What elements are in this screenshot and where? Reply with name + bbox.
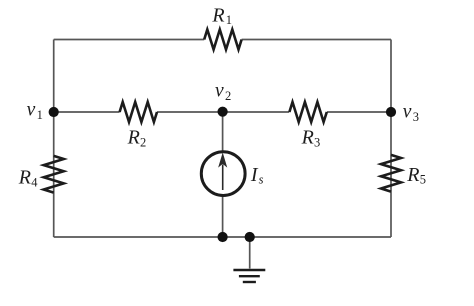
resistor R5 [381,155,401,192]
label v1 [27,100,43,123]
svg-text:4: 4 [31,175,38,189]
node v3 (junction dot) [386,107,396,117]
wire: right vertical branch (top-right corner to bottom rail) [390,40,392,238]
svg-text:3: 3 [413,110,419,124]
resistor R2 [120,102,157,122]
resistor R4 [44,156,64,193]
label R2 [127,127,147,150]
node v1 (junction dot) [49,107,59,117]
svg-text:R: R [211,5,224,27]
label v2 [215,80,231,103]
svg-text:R: R [18,167,31,189]
node: bottom junction of source branch [218,232,228,242]
wire: ground stub [249,237,251,269]
svg-text:s: s [259,172,264,186]
ground [233,270,265,282]
wire: top rail right segment (R1 to top-right corner) [242,39,391,41]
svg-text:1: 1 [37,108,43,122]
wire: middle rail R2 to R3 (through node v2) [157,111,289,113]
svg-text:v: v [27,100,36,121]
svg-text:1: 1 [226,13,232,27]
wire: v2 down to current source top [222,112,224,152]
wire: middle rail R3 to v3 [327,111,391,113]
svg-text:v: v [215,80,224,101]
svg-text:v: v [403,101,412,122]
wire: left vertical branch (v1 down to bottom rail) [53,40,55,238]
resistor R3 [289,102,326,122]
svg-text:5: 5 [420,173,426,187]
wire: middle rail v1 to R2 [54,111,120,113]
svg-text:I: I [250,164,259,186]
resistor R1 [204,30,241,50]
wire: top rail left segment (top-left corner to R1) [54,39,205,41]
svg-text:R: R [127,127,140,149]
node v2 (junction dot) [218,107,228,117]
label R1 [211,5,232,28]
svg-text:R: R [301,127,314,149]
label R3 [301,127,321,150]
svg-text:R: R [406,164,419,186]
label v3 [403,101,419,124]
wire: bottom rail [54,236,391,238]
current source Is (circle) [201,152,245,196]
svg-text:2: 2 [140,135,146,149]
svg-text:3: 3 [314,135,320,149]
current source arrow [219,154,226,190]
label R4 [18,167,38,190]
label R5 [406,164,426,187]
wire: current source bottom to bottom rail [222,196,224,237]
label Is [250,164,264,186]
svg-text:2: 2 [225,89,231,103]
node: bottom junction at ground stub [245,232,255,242]
